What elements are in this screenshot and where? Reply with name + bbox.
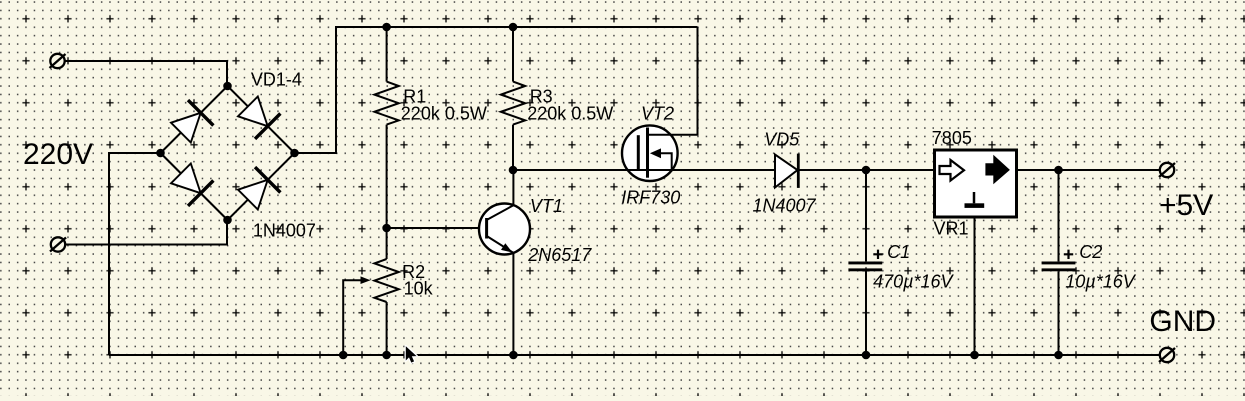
- node 7805 ground pin at rail: [970, 351, 979, 360]
- node ground rail R2 wiper: [339, 351, 348, 360]
- node C1 top junction: [862, 166, 871, 175]
- svg-text:1N4007: 1N4007: [753, 195, 817, 215]
- node bridge right: [290, 149, 299, 158]
- node bridge left: [156, 149, 165, 158]
- svg-text:VD5: VD5: [764, 130, 800, 150]
- wire top terminal to bridge top node: [65, 61, 227, 86]
- diode VD1: [171, 100, 213, 142]
- C2 plus sign: [1064, 250, 1073, 259]
- transistor VT1 2N6517: [479, 204, 530, 255]
- svg-text:10µ*16V: 10µ*16V: [1065, 271, 1136, 291]
- wire bridge left node to ground rail: [109, 153, 161, 355]
- wire VT2 drain to top rail: [648, 27, 698, 135]
- svg-text:220k 0.5W: 220k 0.5W: [527, 104, 613, 124]
- capacitor C1 470u*16V: [865, 170, 867, 261]
- wire 7805 ground pin: [974, 219, 976, 356]
- resistor R2 10k potentiometer: [386, 228, 388, 259]
- diode VD3: [171, 164, 213, 206]
- svg-text:VT2: VT2: [641, 104, 674, 124]
- wire bridge right node to top rail: [295, 27, 698, 153]
- node R1/R2/base junction: [382, 224, 391, 233]
- wire VD5 cathode to 7805 input: [798, 169, 933, 171]
- wire bridge edge for VD4: [228, 153, 295, 220]
- node ground rail C1: [862, 351, 871, 360]
- node ground rail R2 bottom: [382, 351, 391, 360]
- capacitor C2 10u*16V: [1058, 170, 1060, 261]
- svg-text:2N6517: 2N6517: [527, 245, 592, 265]
- node bridge bottom: [223, 216, 232, 225]
- resistor R3 220k 0.5W: [512, 27, 514, 82]
- svg-text:VR1: VR1: [934, 219, 969, 239]
- svg-text:7805: 7805: [932, 128, 972, 148]
- wire bridge edge for VD1: [161, 86, 228, 153]
- voltage regulator VR1 7805: [935, 150, 1017, 217]
- svg-text:IRF730: IRF730: [621, 188, 680, 208]
- node top rail R3: [509, 23, 518, 32]
- terminal X1 (220V top input): [50, 54, 66, 68]
- wire bottom terminal to bridge bottom node: [65, 220, 227, 245]
- terminal GND output: [1159, 348, 1175, 362]
- svg-text:220k 0.5W: 220k 0.5W: [401, 104, 487, 124]
- node ground rail C2: [1054, 351, 1063, 360]
- terminal +5V output: [1159, 163, 1175, 177]
- diode VD2: [238, 97, 280, 139]
- R2 wiper arrow and wire to ground rail: [343, 280, 361, 355]
- terminal X2 (220V bottom input): [50, 237, 66, 251]
- diode VD4: [238, 167, 280, 209]
- C1 plus sign: [873, 250, 882, 259]
- svg-text:1N4007: 1N4007: [253, 220, 316, 240]
- wire bridge edge for VD3: [161, 153, 228, 220]
- wire VT1 emitter to ground rail: [512, 253, 514, 355]
- svg-text:GND: GND: [1149, 305, 1216, 338]
- node top rail R1: [382, 23, 391, 32]
- node R3/VT1 collector/VT2 gate junction: [509, 166, 518, 175]
- svg-text:470µ*16V: 470µ*16V: [873, 271, 954, 291]
- diode VD5 1N4007: [775, 154, 798, 188]
- svg-text:+5V: +5V: [1159, 189, 1213, 222]
- svg-text:VT1: VT1: [530, 196, 563, 216]
- resistor R1 220k 0.5W: [386, 27, 388, 82]
- wire VT1 base from junction: [387, 227, 487, 229]
- mouse cursor: [406, 346, 417, 362]
- svg-text:VD1-4: VD1-4: [251, 69, 302, 89]
- wire gate/source rail through VT2 to VD5: [513, 169, 776, 171]
- svg-text:C1: C1: [887, 242, 910, 262]
- node bridge top: [223, 82, 232, 91]
- wire 7805 output: [1018, 169, 1160, 171]
- transistor VT2 IRF730 (MOSFET): [622, 125, 678, 181]
- node ground rail VT1 emitter: [509, 351, 518, 360]
- wire VT1 collector to node: [512, 170, 514, 205]
- svg-text:10k: 10k: [404, 279, 434, 299]
- ground rail (bottom): [109, 354, 1160, 356]
- svg-text:C2: C2: [1079, 242, 1102, 262]
- wire bridge edge for VD2: [228, 86, 295, 153]
- svg-text:220V: 220V: [23, 138, 93, 171]
- node C2 top junction: [1054, 166, 1063, 175]
